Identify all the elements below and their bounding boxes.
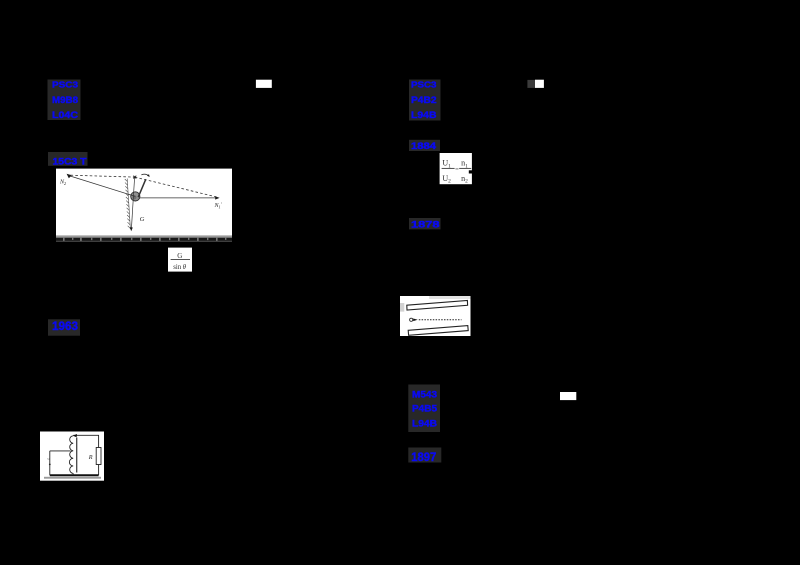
svg-text:1878: 1878: [411, 220, 440, 231]
svg-text:~: ~: [47, 458, 50, 463]
svg-text:sin θ: sin θ: [173, 264, 186, 271]
iron core bar: [76, 438, 78, 473]
svg-text:15C3 T: 15C3 T: [53, 156, 87, 167]
svg-text:P4B2: P4B2: [411, 95, 437, 106]
vertical G line with arrow: [131, 177, 134, 229]
svg-text:G: G: [140, 216, 145, 223]
highlight box right 5: [408, 448, 441, 463]
velocity arrow: [413, 319, 418, 322]
anchor arrowhead top-left: [67, 174, 72, 179]
highlight box left 1: [48, 80, 81, 121]
dashed trajectory: [419, 319, 462, 321]
highlight box right 3: [409, 218, 441, 229]
svg-text:L94B: L94B: [412, 419, 437, 430]
highlight box left 2: [48, 152, 88, 166]
formula box G/sin theta: [168, 248, 192, 272]
coil L1 windings: [69, 436, 73, 474]
figure 3: autotransformer circuit: [40, 432, 104, 481]
figure 2 white box: [400, 296, 471, 336]
dashed rope left segment: [71, 175, 135, 177]
svg-text:PSC3: PSC3: [52, 80, 78, 90]
figure 1 white box: [56, 169, 232, 236]
wire: tap: [50, 450, 71, 452]
highlight box right 1: [409, 80, 441, 121]
svg-text:M543: M543: [412, 390, 437, 401]
dashed rope right segment: [135, 177, 217, 197]
light strip artifact: [429, 296, 471, 299]
wire: bottom: [50, 474, 99, 476]
formula box U1/U2 = n1/n2: [440, 153, 472, 185]
left gray patch artifact: [400, 303, 404, 312]
string N1 with arrow: [140, 197, 217, 199]
svg-text:1897: 1897: [411, 452, 436, 464]
wall hatching: [125, 179, 131, 230]
svg-text:=: =: [455, 166, 459, 173]
figure 2: parallel plates with trajectory: [400, 296, 471, 336]
wire: left vertical: [49, 451, 51, 475]
svg-text:1963: 1963: [52, 321, 78, 333]
svg-text:R: R: [88, 454, 93, 461]
string N2: [69, 176, 136, 197]
wire: resistor to bottom: [98, 465, 100, 476]
figure 1 caption strip: [56, 236, 232, 242]
circuit white box: [40, 432, 104, 481]
highlight box left 3: [48, 319, 80, 335]
bottom plate: [408, 326, 468, 336]
highlight box right 4: [408, 385, 440, 433]
highlight box right 2: [409, 140, 440, 151]
svg-text:1884: 1884: [411, 141, 437, 152]
svg-text:L04C: L04C: [52, 110, 78, 121]
resistor R: [96, 448, 101, 465]
charged particle: [410, 318, 413, 321]
svg-text:N2: N2: [59, 180, 66, 186]
svg-text:G: G: [177, 252, 182, 260]
svg-text:PSC3: PSC3: [411, 80, 437, 90]
white chip right top: [535, 80, 544, 88]
top plate: [407, 301, 468, 311]
caption shadow strip: [44, 477, 101, 479]
gray chip right top: [527, 80, 535, 88]
slider arrow at coil top: [73, 434, 77, 437]
arc arrow: [141, 174, 148, 176]
figure 1: ball against wall diagram: [56, 169, 232, 242]
svg-text:L94B: L94B: [411, 110, 437, 121]
wire: coil bottom to bottom wire: [72, 473, 74, 475]
ball: [131, 192, 140, 201]
small white chip top middle-left: [256, 80, 272, 88]
nail cross mark: [133, 176, 136, 179]
white chip right lower: [560, 392, 576, 400]
svg-text:M9B8: M9B8: [52, 95, 78, 106]
svg-text:P4B5: P4B5: [412, 404, 438, 415]
tilted rod: [138, 179, 146, 197]
wire: top from coil to right: [73, 435, 98, 447]
